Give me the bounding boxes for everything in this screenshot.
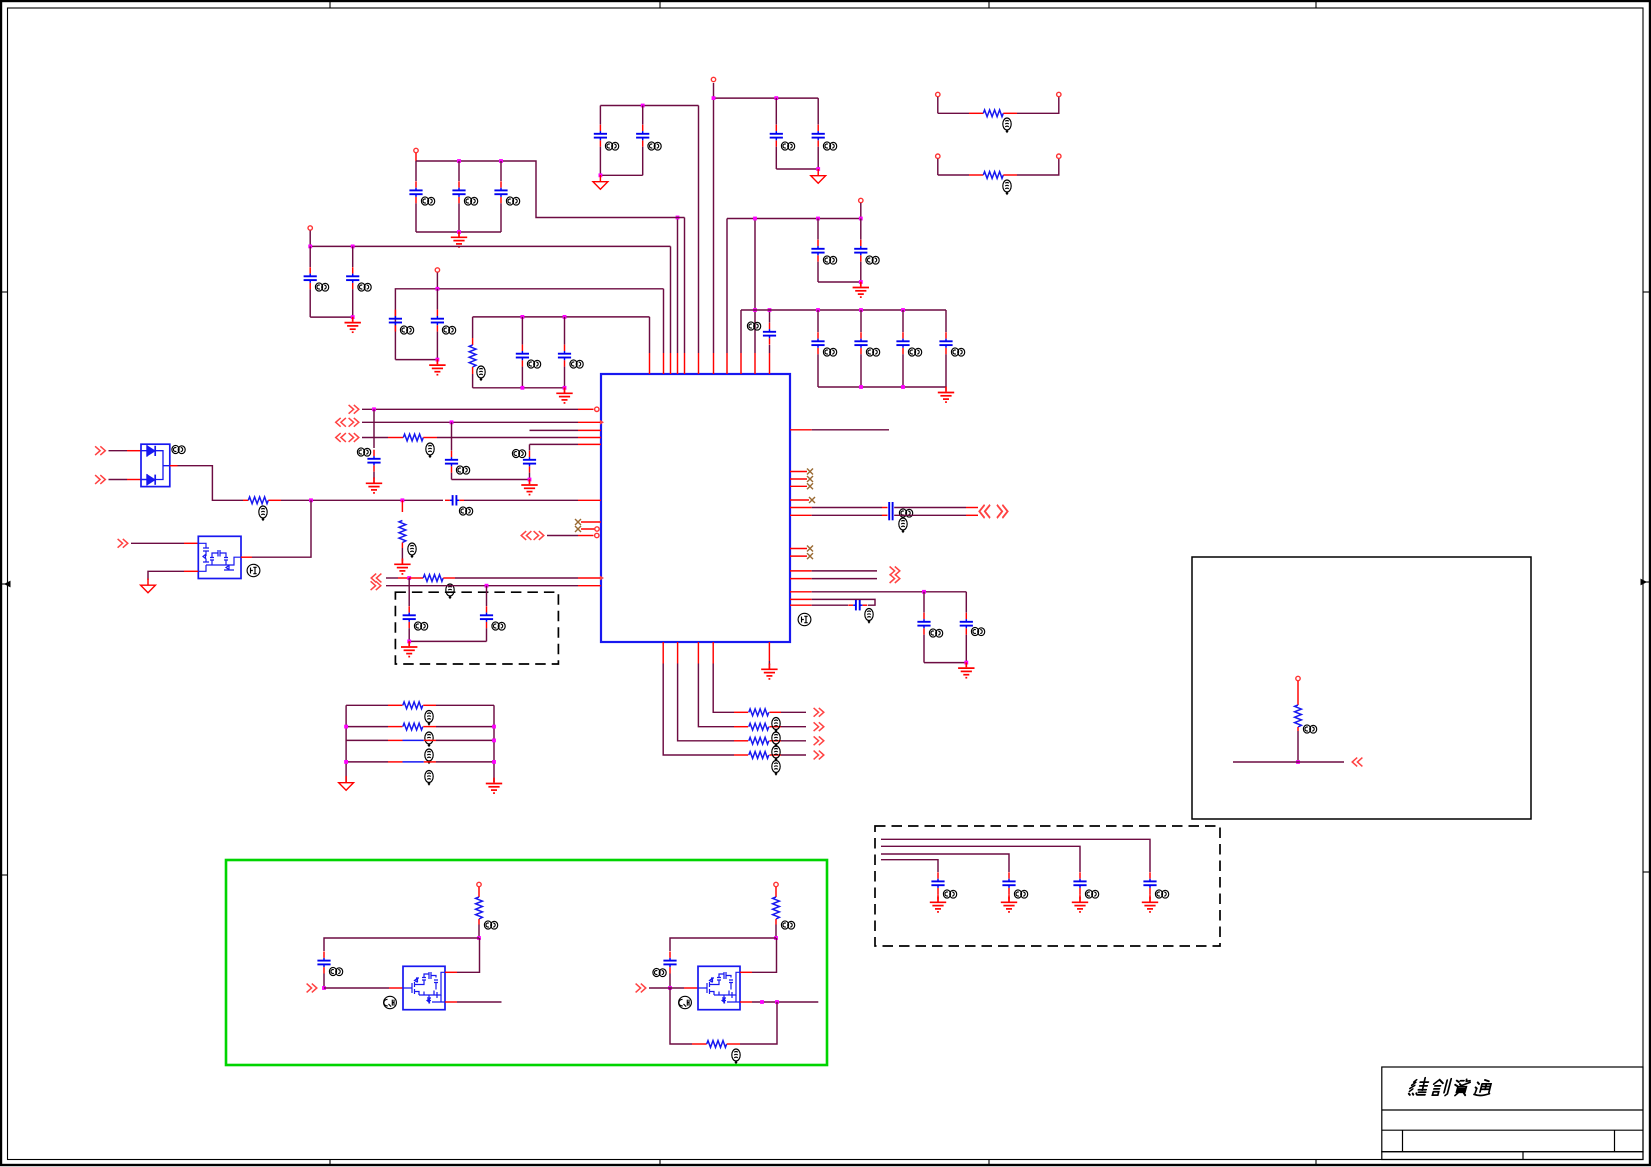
junction bus I c3	[901, 308, 905, 312]
wire bus C	[395, 289, 663, 360]
wire Q1 out	[445, 1001, 457, 1003]
junction bus I c2	[859, 308, 863, 312]
label CA2	[464, 197, 477, 205]
ground group A	[451, 232, 467, 247]
wire bottom pin1 row	[662, 642, 664, 664]
label RG1	[484, 921, 497, 929]
capacitor CI1	[817, 310, 819, 332]
resistor row RT2	[936, 154, 940, 158]
wire Q2 out	[740, 1001, 752, 1003]
ground R pulldown	[394, 559, 410, 574]
wire U6P source to ground	[184, 570, 198, 572]
capacitor CC1	[389, 310, 402, 332]
wire rowA	[386, 577, 398, 579]
ground group H	[853, 282, 869, 297]
wire ladder row2	[346, 726, 388, 728]
transistor U6P input chevron	[118, 539, 128, 548]
wire P-C stub	[436, 273, 438, 289]
ground dashed box	[401, 641, 417, 656]
junction C bottom	[436, 358, 440, 362]
label CG2a	[653, 968, 666, 976]
wire right y578.6	[790, 578, 812, 580]
label CF1	[605, 142, 618, 150]
wire dbox bus2	[881, 846, 1080, 872]
junction bus F c2	[641, 104, 645, 108]
wire right y429.8	[790, 429, 812, 431]
ground group G (arrow)	[811, 169, 826, 183]
port chevrons y535	[521, 531, 531, 540]
capacitor CV0 with ground	[373, 409, 375, 448]
wire rowB	[386, 585, 578, 587]
wire Q1 drain up	[445, 971, 457, 973]
wire P1 net to group G	[714, 97, 819, 99]
capacitor CB1	[309, 246, 311, 267]
wire vertical bus D to IC pin	[649, 317, 651, 353]
label ladder R2	[425, 732, 433, 746]
junction bus A c3	[499, 159, 503, 163]
junction Q2 loop	[775, 1000, 779, 1004]
wire Q2 drain up	[740, 971, 752, 973]
ground CM1	[930, 897, 946, 912]
capacitor CV1	[451, 422, 453, 450]
capacitor CA3	[500, 161, 502, 181]
wire row5 from cap V2	[530, 443, 579, 445]
wire vertical bus H left end to IC pin	[726, 219, 728, 354]
capacitor CG2	[817, 98, 819, 124]
wire row4 with resistor	[362, 437, 388, 439]
label CV0	[357, 448, 370, 456]
label Q1	[384, 996, 397, 1008]
junction G bottom	[816, 167, 820, 171]
port chevrons row4	[336, 433, 346, 442]
junction bus D c1	[521, 315, 525, 319]
label CA1	[421, 197, 434, 205]
ground CV0	[366, 478, 382, 493]
junction G2 gate	[668, 986, 672, 990]
label CR1	[929, 629, 942, 637]
junction F bottom	[599, 173, 603, 177]
wire ladder row3 (jumper)	[346, 739, 388, 741]
ground ladder left (arrow)	[339, 776, 354, 790]
pin arrow rowA	[600, 576, 604, 581]
pin P-B	[308, 226, 312, 230]
capacitor CA1	[415, 161, 417, 181]
resistor RD (vertical)	[472, 317, 474, 338]
label CI4	[951, 348, 964, 356]
wire Q2 feedback loop with resistor	[670, 988, 692, 1044]
junction bus I x755	[753, 308, 757, 312]
capacitor CR2	[965, 592, 967, 613]
junction V bottom	[528, 478, 532, 482]
border zone tick bottom 2	[659, 1160, 661, 1167]
wire resistor G2	[775, 887, 777, 897]
border zone tick top 2	[659, 0, 661, 8]
label Q2	[679, 996, 692, 1008]
junction I bottom c3	[901, 385, 905, 389]
port chevrons y507-515 tall	[979, 505, 990, 518]
label CA3	[506, 197, 519, 205]
label CR2	[971, 627, 984, 635]
capacitor CF2	[642, 106, 644, 125]
junction rowB	[485, 584, 489, 588]
wire vertical bus C to IC pin	[663, 289, 665, 353]
resistor R main (series)	[243, 499, 248, 501]
wire vertical bus A end to IC pin	[684, 218, 686, 354]
label CB2	[358, 283, 371, 291]
wire vertical bus A junction to IC pin	[677, 218, 679, 354]
label U6P	[247, 564, 260, 576]
wire main row y500	[281, 499, 443, 501]
junction bus B left	[308, 245, 312, 249]
wire right y599.4 loop	[790, 598, 812, 600]
border zone tick bottom 3	[988, 1160, 990, 1167]
border center arrow left	[3, 581, 10, 586]
glyph Zi	[1452, 1079, 1471, 1095]
label CH1	[823, 256, 836, 264]
capacitor CH2	[860, 219, 862, 240]
wire group F bottom	[600, 174, 642, 176]
border zone tick top 3	[988, 0, 990, 8]
pin arrow row2	[600, 420, 604, 425]
junction row1 cap V0	[372, 407, 376, 411]
junction dashed box	[407, 640, 411, 644]
dual diode D6 input chevron 1	[95, 446, 105, 455]
label RT1	[1003, 118, 1011, 132]
wire row2 to IC	[362, 421, 578, 423]
label CC2	[442, 326, 455, 334]
wire dbox bus4	[881, 860, 938, 872]
label R main	[259, 506, 267, 520]
wire group A bottom	[416, 231, 501, 233]
glyph Tong	[1473, 1080, 1493, 1096]
label 6P right	[798, 613, 811, 625]
label CG1	[781, 142, 794, 150]
border center arrow right	[1641, 579, 1648, 584]
border zone tick bottom 1	[329, 1160, 331, 1167]
junction rail R row3	[492, 739, 496, 743]
label C coupling 2	[899, 518, 907, 532]
nc stub y556.1	[790, 555, 807, 557]
capacitor CR1	[923, 592, 925, 613]
resistor row RT1 top-right	[936, 92, 940, 96]
port chevron G2	[636, 984, 646, 993]
border zone tick left 2	[0, 583, 8, 585]
wire G1 gate	[324, 987, 389, 989]
ground U6P (arrow)	[141, 579, 156, 593]
wire right y515.3	[790, 514, 812, 516]
wire bus I	[741, 309, 946, 311]
ground CM4	[1142, 897, 1158, 912]
junction G1 gate	[322, 986, 326, 990]
ground group D	[556, 388, 572, 403]
label C series y605	[865, 609, 873, 623]
capacitor CB2	[352, 246, 354, 267]
border zone tick right 3	[1643, 871, 1651, 873]
ground CM2	[1001, 897, 1017, 912]
label R box2	[1303, 725, 1316, 733]
junction Q2 out	[760, 1000, 764, 1004]
capacitor CD-B	[486, 586, 488, 606]
wire vertical bus I left end to IC pin	[740, 310, 742, 353]
pin bubble row1	[595, 407, 599, 411]
wire bus F	[600, 105, 698, 107]
green highlight box	[226, 860, 827, 1065]
pin P-A	[414, 148, 418, 152]
port chevron row1	[349, 405, 359, 414]
IC U1 main body	[601, 374, 790, 642]
wire ladder left rail	[345, 705, 347, 782]
wire group D bottom	[473, 387, 565, 389]
port chevron G1	[307, 984, 317, 993]
port chevron rowB	[371, 581, 381, 590]
capacitor CA2	[458, 161, 460, 181]
border zone tick top 4	[1315, 0, 1317, 8]
title block company logo text (Wistron)	[1408, 1078, 1493, 1096]
label CI2	[866, 348, 879, 356]
junction y591.8	[922, 590, 926, 594]
wire group C bottom	[395, 359, 437, 361]
label CG2	[823, 142, 836, 150]
nc stub y471.5	[790, 471, 807, 473]
wire ladder row1	[346, 704, 388, 706]
wire bus D	[473, 316, 650, 318]
ground IC bottom	[761, 664, 777, 679]
junction rail L row2	[344, 725, 348, 729]
dashed box decoupling	[395, 592, 558, 664]
junction G c1	[774, 96, 778, 100]
junction main-Rpulldown	[401, 498, 405, 502]
border zone tick right 1	[1643, 291, 1651, 293]
wire vertical bus B to IC pin	[670, 246, 672, 353]
port chevron box2	[1352, 758, 1362, 767]
junction bus C	[436, 287, 440, 291]
wire bottom pin2 row	[677, 642, 679, 664]
label CC1	[400, 326, 413, 334]
label CM4	[1155, 890, 1168, 898]
no-connect x y529	[575, 526, 581, 532]
capacitor CD2	[564, 317, 566, 345]
nc stub y500	[790, 499, 809, 501]
nc stub y522	[581, 521, 601, 523]
border zone tick right 2	[1643, 581, 1651, 583]
capacitor CD1	[521, 317, 523, 345]
pin P-C	[435, 268, 439, 272]
wire vertical group F bus to IC pin	[698, 106, 700, 354]
junction bus B c2	[351, 245, 355, 249]
wire group G bottom	[776, 168, 818, 170]
label C9	[747, 322, 760, 330]
junction bus A c2	[457, 159, 461, 163]
wire diode output	[170, 465, 178, 467]
ground group C	[429, 359, 445, 374]
pin box2	[1296, 676, 1300, 680]
junction row2 cap V1	[450, 420, 454, 424]
ground group B	[345, 317, 361, 332]
wire box2 horizontal	[1233, 761, 1344, 763]
label CD1	[527, 360, 540, 368]
wire dbox bus1	[881, 839, 1150, 872]
wire P-A stub	[415, 153, 417, 161]
capacitor CI3	[902, 310, 904, 332]
label CI3	[908, 348, 921, 356]
label RD	[477, 366, 485, 380]
label ladder L3	[425, 749, 433, 763]
label CF2	[648, 142, 661, 150]
capacitor CM1	[931, 872, 944, 894]
wire ladder row4 (jumper)	[346, 761, 388, 763]
nc stub y479	[790, 478, 807, 480]
label CD-A	[414, 622, 427, 630]
ground V pair	[521, 479, 537, 494]
port chevron y570.9	[890, 567, 900, 576]
capacitor CF1	[599, 106, 601, 125]
green cell 1: pull-up pin	[477, 882, 481, 886]
transistor U6P body	[198, 536, 241, 578]
junction B bottom	[351, 315, 355, 319]
wire right y570.9	[790, 570, 812, 572]
wire bus B	[310, 245, 670, 247]
junction bus H x755	[753, 217, 757, 221]
wire right y591.8 to caps	[790, 591, 812, 593]
ground caps right	[958, 662, 974, 677]
label D6	[172, 445, 185, 453]
wire caps V1-V2 bottom	[452, 479, 530, 481]
port chevron rowA	[371, 574, 381, 583]
capacitor CM3	[1073, 872, 1086, 894]
label R rowA	[446, 584, 454, 598]
junction bus I c1	[816, 308, 820, 312]
ground ladder right	[486, 778, 502, 793]
border zone tick bottom 4	[1315, 1160, 1317, 1167]
ground group F (arrow)	[593, 175, 608, 189]
wire vertical from bus I via series cap C9 to IC pin	[769, 310, 771, 353]
title block	[1382, 1067, 1643, 1160]
label Rb2	[772, 732, 780, 746]
capacitor C coupling (tall, spans both rows)	[888, 502, 890, 520]
junction D bottom c2	[563, 386, 567, 390]
wire bus H	[727, 218, 861, 220]
junction D bottom c1	[521, 386, 525, 390]
IC ground pin bottom	[768, 642, 770, 661]
ground group I	[938, 387, 954, 402]
capacitor CM2	[1002, 872, 1015, 894]
pin bubble y535	[595, 533, 599, 537]
wire G1 top link	[324, 938, 479, 951]
glyph Wei	[1408, 1078, 1429, 1095]
label R row4	[426, 443, 434, 457]
transistor Q2 body	[698, 966, 740, 1009]
junction caps right bottom	[964, 661, 968, 665]
label R pulldown	[408, 543, 416, 557]
wire P-B stub	[309, 231, 311, 247]
wire box2 resistor	[1297, 681, 1299, 705]
junction G2	[774, 936, 778, 940]
junction main-transistor	[309, 498, 313, 502]
border zone tick left 1	[0, 291, 8, 293]
glyph Chuang	[1431, 1079, 1452, 1096]
label ladder R1	[425, 711, 433, 725]
junction rail R row2	[492, 725, 496, 729]
label Rb1	[772, 718, 780, 732]
ground CM3	[1072, 897, 1088, 912]
wire caps right bottom	[924, 662, 966, 664]
label RG2	[781, 921, 794, 929]
no-connect x y522	[575, 519, 581, 525]
label R loop	[732, 1049, 740, 1063]
pin P-H	[859, 198, 863, 202]
wire row3 short	[530, 429, 579, 431]
wire right y507.5 with series cap	[790, 507, 812, 509]
junction rail R row4	[492, 760, 496, 764]
junction I bottom c2	[859, 385, 863, 389]
pin bubble y529	[595, 527, 599, 531]
junction G1	[477, 936, 481, 940]
capacitor CG1	[775, 98, 777, 124]
label CI1	[823, 348, 836, 356]
label CM3	[1085, 890, 1098, 898]
capacitor CD-A	[408, 578, 410, 606]
nc stub y486.3	[790, 485, 807, 487]
label CB1	[315, 283, 328, 291]
label CM1	[943, 890, 956, 898]
dashed box memory caps	[875, 826, 1220, 946]
capacitor CC2	[436, 289, 438, 310]
capacitor CI4	[945, 310, 947, 332]
capacitor CG2a	[663, 952, 676, 974]
junction H bottom	[859, 280, 863, 284]
label CD-B	[492, 622, 505, 630]
wire diode in1	[109, 450, 128, 452]
solid box right	[1192, 557, 1531, 819]
junction bus H c2	[859, 217, 863, 221]
wire bottom pin3 row	[697, 642, 699, 664]
junction bus A x677	[676, 216, 680, 220]
label CM2	[1014, 890, 1027, 898]
dual diode D6 input chevron 2	[95, 475, 105, 484]
junction bus H c1	[816, 217, 820, 221]
wire vertical bus H/I tie to IC pin	[754, 219, 756, 354]
wire group B bottom	[310, 316, 353, 318]
label RT2	[1003, 180, 1011, 194]
label C coupling 1	[899, 509, 912, 517]
label CV1	[456, 466, 469, 474]
wire diode in2	[109, 479, 128, 481]
wire resistor G1	[478, 887, 480, 897]
wire group H bottom	[818, 281, 861, 283]
label CH2	[866, 256, 879, 264]
capacitor C9 (series, on bus I feed)	[763, 323, 776, 345]
capacitor CV2	[529, 444, 531, 450]
wire dashed box bottom	[409, 640, 486, 642]
label Rb3	[772, 746, 780, 760]
capacitor CH1	[817, 219, 819, 240]
wire G2 gate	[649, 987, 684, 989]
capacitor CG1a	[317, 952, 330, 974]
junction bus D c2	[563, 315, 567, 319]
wire bottom pin4 row	[712, 642, 714, 664]
pin VCC P1	[711, 77, 715, 81]
port chevrons row2	[336, 418, 346, 427]
wire U6P drain	[241, 556, 252, 558]
capacitor CI2	[860, 310, 862, 332]
wire group I bottom	[818, 386, 946, 388]
green cell 2: pull-up pin	[774, 882, 778, 886]
label Rb4	[772, 761, 780, 775]
junction P1	[712, 96, 716, 100]
capacitor CM4	[1143, 872, 1156, 894]
wire U6P gate	[131, 542, 184, 544]
wire dbox bus3	[881, 854, 1009, 872]
